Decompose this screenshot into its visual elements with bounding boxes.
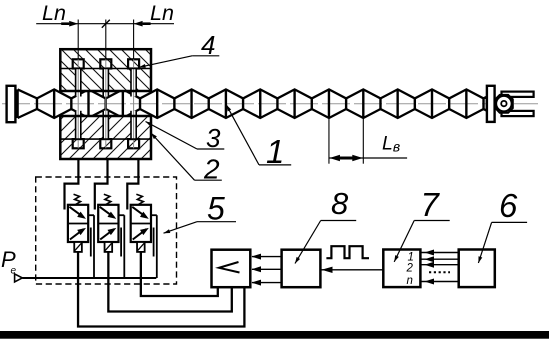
svg-text:7: 7 [421,186,441,223]
svg-text:Ln: Ln [42,1,66,25]
svg-text:8: 8 [331,186,349,221]
svg-text:Ln: Ln [150,1,174,25]
svg-text:2: 2 [406,263,414,275]
svg-text:6: 6 [499,187,518,224]
svg-text:n: n [407,275,413,287]
